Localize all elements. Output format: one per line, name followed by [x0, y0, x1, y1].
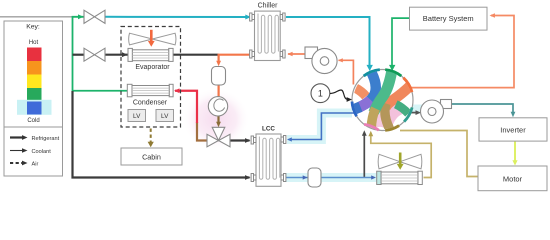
arrow green into valve top-right port [389, 65, 395, 71]
key legend box [4, 21, 63, 176]
arrow orange into battery system [490, 13, 496, 18]
wire: 3-way valve to condenser (brown segment) [197, 122, 207, 141]
arrow dark into LCC top-left port [245, 138, 251, 143]
wire: teal valve1 to chiller [105, 16, 249, 18]
svg-text:Refrigerant: Refrigerant [32, 136, 60, 142]
fan above radiator [378, 154, 422, 169]
arrow orange into pump1 [338, 58, 343, 62]
arrow brown into 3-way valve [216, 122, 221, 127]
compressor [208, 97, 227, 116]
3-way valve [207, 127, 230, 147]
arrow green into valve V1 [78, 14, 84, 19]
radiator [377, 171, 423, 184]
arrow khaki up into valve bottom port [368, 131, 373, 137]
wire: green battery outlet to valve [392, 18, 410, 65]
HVAC dashed enclosure [121, 27, 181, 128]
inverter box [479, 118, 547, 141]
wire: evaporator outlet [173, 54, 219, 56]
svg-text:Air: Air [32, 161, 39, 167]
ribbon violet segment [358, 100, 371, 108]
key coolant arrow [10, 150, 24, 152]
ribbon blue top to left [354, 70, 376, 110]
dashed air arrow into cabin [150, 129, 152, 143]
arrow blue into LCC top-right port [287, 137, 292, 141]
evaporator [128, 48, 173, 61]
chiller [250, 11, 286, 60]
port marker khaki bottom-right [385, 126, 399, 131]
ribbon green stub lower-right [396, 104, 409, 113]
wire: blue valve to LCC [289, 113, 356, 140]
ribbon orange stub left [354, 87, 367, 97]
port marker teal top-left [364, 70, 380, 76]
wire: compressor discharge to 3-way valve [217, 116, 219, 124]
arrow dark into evaporator [122, 52, 128, 57]
svg-text:Cold: Cold [27, 118, 39, 124]
wire: orange chiller refrigerant outlet [219, 55, 250, 62]
svg-text:Key:: Key: [26, 24, 40, 31]
svg-text:Condenser: Condenser [133, 100, 168, 107]
port marker pink bottom-left [364, 124, 379, 130]
wire: khaki valve to radiator [371, 133, 431, 178]
wire: teal chiller top-right to valve [286, 17, 370, 66]
wire: dark LCC feed from left riser [73, 91, 250, 178]
chiller ports [250, 13, 286, 58]
ribbon orange right to center [385, 85, 411, 108]
key divider [4, 126, 63, 128]
svg-text:Chiller: Chiller [258, 3, 279, 10]
svg-text:1: 1 [318, 89, 323, 99]
wire: gray valve to pump2 [411, 112, 417, 114]
wire: orange pump1 inlet from valve [339, 60, 354, 84]
wire: gray radiator riser to valve [363, 133, 365, 178]
ribbon pink band bottom-right (under) [386, 108, 403, 129]
port marker orange right [403, 78, 412, 92]
wire: green condenser feed [73, 90, 128, 92]
hot highlight glow [182, 88, 250, 150]
wire: 3-way valve to condenser (red segment) [175, 91, 197, 123]
arrow teal into valve top-left port [367, 65, 373, 71]
cabin box [121, 148, 182, 165]
ribbon khaki tail to bottom port [371, 109, 375, 130]
wire: green riser condenser-out [73, 17, 85, 91]
expansion valve V2 [84, 48, 105, 61]
svg-text:Hot: Hot [29, 40, 39, 46]
motor box [478, 166, 547, 191]
wire: accumulator to compressor [218, 85, 220, 97]
callout circle 1 [311, 84, 330, 103]
svg-text:Motor: Motor [503, 174, 523, 183]
wire: orange valve to battery system [411, 16, 515, 88]
cold highlight glow: LCC to radiator path [286, 173, 377, 182]
callout squiggle pointer [330, 90, 348, 99]
arrow red into condenser [174, 88, 180, 93]
pump P1 (chiller loop) [305, 47, 337, 74]
arrow orange into chiller bottom-right port [287, 52, 292, 57]
key air arrow [10, 162, 22, 164]
wire: teal pump2 to inverter [452, 104, 514, 114]
wire: blue tank to radiator [321, 177, 374, 179]
arrow teal into chiller [245, 15, 251, 20]
svg-text:LV: LV [161, 113, 169, 120]
fan above evaporator [129, 33, 176, 45]
wire: valve V2 to evaporator [105, 54, 128, 56]
arrow dark into LCC bottom-left port [245, 175, 251, 180]
port marker teal lower-right [404, 107, 412, 121]
key color bar [17, 48, 52, 115]
arrow gray up into valve bottom-left port [362, 130, 367, 136]
wire: khaki valve to motor [400, 131, 478, 177]
LCC ports [251, 136, 286, 182]
key refrigerant arrow [10, 136, 24, 138]
svg-text:Coolant: Coolant [32, 149, 52, 155]
svg-text:Battery System: Battery System [423, 14, 474, 23]
coolant tank [308, 168, 321, 187]
port marker green top-right [385, 70, 401, 76]
wire: gray stub top-left [0, 16, 73, 18]
svg-text:Cabin: Cabin [142, 152, 161, 161]
arrow yellow into motor [512, 160, 517, 165]
arrow orange into accumulator [216, 61, 221, 67]
port marker blue left [352, 102, 357, 117]
ribbon green top-right downward [374, 71, 392, 113]
orange air arrow into evaporator [150, 30, 153, 42]
ribbon khaki tail2 to bottom-right port [385, 104, 390, 129]
accumulator [212, 67, 226, 86]
cold highlight glow: valve to LCC path [287, 113, 352, 140]
wire: 3-way valve to LCC [230, 139, 250, 141]
wire: dark refrigerant to valve V2 [73, 54, 85, 56]
svg-text:Inverter: Inverter [500, 125, 526, 134]
cold highlight glow: pump2 inlet [402, 105, 424, 114]
svg-text:LCC: LCC [262, 126, 275, 133]
wire: yellow inverter to motor [514, 141, 516, 162]
arrow teal into inverter [511, 112, 516, 118]
arrow blue into tank [303, 175, 308, 179]
arrow gray into pump2 [416, 110, 422, 115]
arrow blue into radiator [371, 175, 376, 179]
ribbon pink sliver bottom-center [378, 114, 379, 127]
battery system box [410, 7, 488, 30]
LV box 1 [128, 110, 146, 122]
wire: blue LCC to tank [286, 177, 309, 179]
LCC heat exchanger [251, 134, 286, 186]
svg-text:Evaporator: Evaporator [135, 64, 170, 71]
wire: orange chiller coolant from pump1 volute [288, 53, 306, 55]
svg-text:LV: LV [133, 113, 141, 120]
expansion valve V1 [84, 10, 105, 23]
pump P2 (inverter loop) [421, 100, 452, 124]
LV box 2 [156, 110, 174, 122]
ribbon blue end at left port [353, 107, 361, 110]
condenser [127, 84, 173, 97]
olive air arrow into radiator [399, 153, 402, 165]
multiport valve (octovalve) [352, 70, 413, 131]
